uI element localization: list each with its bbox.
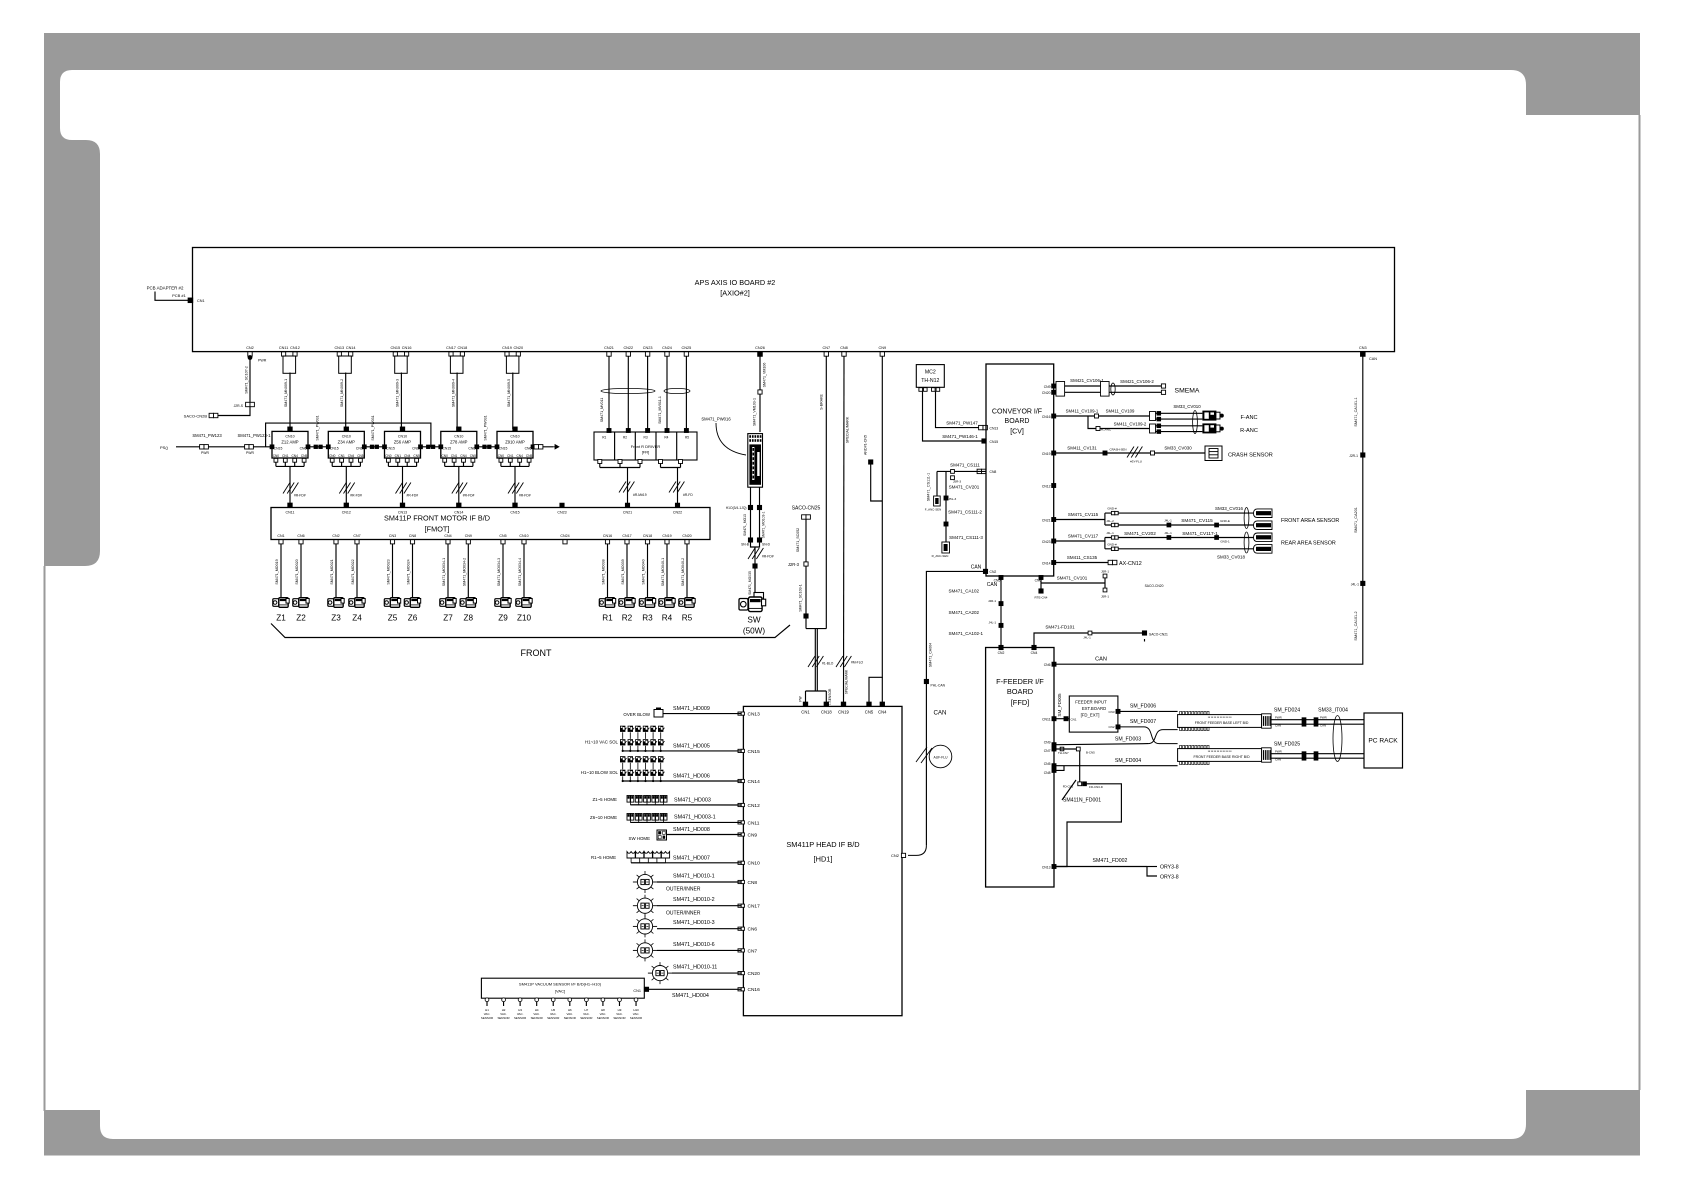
wire FD003 [1056,744,1148,745]
connector J4L-2 [1111,523,1114,526]
svg-text:SM471_CA004: SM471_CA004 [929,643,933,667]
connector CN2 stub [248,352,252,356]
wire CN4 to motor Z7 [447,544,449,598]
svg-text:Z7: Z7 [443,614,453,623]
svg-text:SM471_PW031: SM471_PW031 [371,415,375,440]
svg-text:CN19: CN19 [838,709,849,714]
svg-text:SM471_MO038: SM471_MO038 [602,559,606,584]
svg-text:SM_FD025: SM_FD025 [1274,742,1300,748]
svg-text:CN10: CN10 [398,435,407,439]
svg-text:PHL-CAN: PHL-CAN [931,684,946,688]
svg-text:PWR: PWR [201,451,209,455]
svg-text:CN6: CN6 [748,927,758,933]
wire CN2 to SACO-CN2B [217,407,250,416]
svg-text:CN4: CN4 [1031,651,1038,655]
svg-text:SM_FD003: SM_FD003 [1115,737,1141,743]
svg-text:CN5: CN5 [526,454,533,458]
hatch amp Z78 AMP output [452,483,459,494]
svg-text:CAN: CAN [1320,724,1326,728]
svg-text:SM33_CV016: SM33_CV016 [1215,506,1244,511]
VAC sensor stub H7 [585,998,589,1002]
svg-text:Z9: Z9 [498,614,508,623]
frame right thin line [1639,115,1641,1090]
hatch FR out B [669,482,676,493]
svg-text:SM471_CV115: SM471_CV115 [1068,512,1099,517]
svg-text:SM411N_FD001: SM411N_FD001 [1063,798,1101,804]
svg-text:SM471_CV101: SM471_CV101 [1057,576,1088,581]
connector HD1 CN14 [738,779,741,782]
svg-text:CN10: CN10 [454,435,463,439]
svg-text:CN6: CN6 [525,447,532,451]
connector FFD CN6 [1052,662,1056,666]
wire CN22 to FR driver [627,356,629,429]
wire HD004 [649,988,741,990]
svg-text:SM471_SC052: SM471_SC052 [796,528,800,552]
connector CV CN6 pin [1039,576,1043,580]
wire SACO-CN25 down [805,519,807,628]
svg-text:R4: R4 [664,436,668,440]
svg-text:CN1: CN1 [633,989,641,993]
svg-text:GND-1: GND-1 [1220,540,1230,544]
wire CV109 branch [1088,416,1150,429]
svg-text:CN10: CN10 [342,435,351,439]
svg-text:38 38 38 38 38 38 38 38: 38 38 38 38 38 38 38 38 [1208,751,1233,753]
wire HD006 [623,780,741,782]
svg-text:PCB #1: PCB #1 [172,293,187,298]
board FFD outline [986,648,1054,888]
motor Z1 [273,599,279,607]
wire SW merge [751,542,760,547]
connector ANC mid rects [1150,412,1156,421]
wire HD009 [663,713,741,715]
connector HD1 CN4 [880,702,884,706]
svg-text:SM471_HD010-11: SM471_HD010-11 [673,965,717,971]
svg-text:H1O(3/4-1JQ): H1O(3/4-1JQ) [726,506,747,510]
connector PW016 block [748,434,763,488]
svg-text:CN15: CN15 [990,440,999,444]
svg-text:SM471_MV011: SM471_MV011 [600,398,604,423]
connector F_ANC-SEN [934,496,941,506]
svg-text:SM411P HEAD IF B/D: SM411P HEAD IF B/D [786,840,859,849]
wire CN25 to FR driver [685,356,687,429]
svg-text:CN23: CN23 [643,346,653,350]
svg-text:#R-M#19: #R-M#19 [633,493,647,497]
svg-text:SM411_CV131: SM411_CV131 [1067,446,1097,451]
svg-text:R1~5 HOME: R1~5 HOME [591,855,616,860]
connector B-CN sq [1076,747,1080,751]
wire FD002 [1056,866,1147,868]
svg-text:AX-CN12: AX-CN12 [1119,561,1142,567]
svg-text:CN0: CN0 [442,454,449,458]
board FMOT outline [271,508,710,540]
svg-text:CN15: CN15 [442,447,451,451]
wire MC2 PW146-1 [923,391,984,441]
svg-text:CN10: CN10 [748,861,761,867]
wire PCB adapter to CN1 [155,292,190,301]
svg-text:SM471_MO040-1: SM471_MO040-1 [661,558,665,586]
VAC sensor stub H6 [568,998,572,1002]
svg-text:CN17: CN17 [446,346,456,350]
VAC sensor stub H9 [618,998,622,1002]
wire HD008 [666,834,741,836]
svg-text:CN19: CN19 [1042,452,1051,456]
FR bottom pin [679,460,683,464]
connector FD025 pins [1302,752,1306,756]
connector CRASH block [1205,446,1222,461]
motor Z10 [516,599,522,607]
wire amp link 1 [308,446,328,448]
motor Z2 [293,599,299,607]
svg-text:OVER BLOW: OVER BLOW [623,712,650,717]
wire CN2 down [249,356,251,403]
wire CN7 down [825,356,827,629]
svg-text:SM471_CV115: SM471_CV115 [1181,518,1213,523]
svg-text:SM421_CV106-2: SM421_CV106-2 [1120,379,1154,384]
connector FMOT top pin under Z34 AMP [344,503,348,507]
wire CN21 to FR driver [608,356,610,429]
connector PW147 inline [979,425,983,429]
cable tie lens B [664,388,690,393]
connector CN8 stub [410,540,414,544]
wire CN5 to motor Z9 [502,544,504,598]
svg-text:SM411_CS135: SM411_CS135 [1067,555,1098,560]
svg-text:(50W): (50W) [743,627,766,636]
svg-text:CN6: CN6 [412,447,419,451]
svg-text:Z12 AMP: Z12 AMP [281,440,298,445]
svg-text:CN4: CN4 [348,454,355,458]
svg-text:CN6: CN6 [1044,663,1051,667]
wire CS135 [1054,562,1110,564]
svg-text:CN21: CN21 [1042,518,1051,522]
wire CN2 to motor Z3 [335,544,337,598]
connector CN20 stub [685,540,689,544]
svg-text:J4L-1: J4L-1 [1083,636,1091,640]
amp box Z78 AMP [441,431,477,458]
connector SMEMA head [1056,382,1065,397]
VAC sensor stub H1 [485,998,489,1002]
connector J2R-1 pin [1361,453,1365,457]
wire amp link 4 [477,446,497,448]
svg-text:SM471_FD002: SM471_FD002 [1093,858,1128,864]
svg-text:[CV]: [CV] [1010,429,1024,436]
adjuster dial SM471_HD010-3 [637,919,652,934]
wire ORY fork [1147,867,1157,877]
svg-text:GND-#: GND-# [1107,542,1117,546]
svg-text:CN1: CN1 [282,454,289,458]
amp Z78 AMP bottom pins [443,458,447,462]
frame bottom band [44,1139,1640,1156]
connector FD-CN5 sq [1078,782,1082,786]
connector CN3 stub [390,540,394,544]
svg-text:SM471_MO034-3: SM471_MO034-3 [497,558,501,586]
connector FD-CN3-D sq [1083,782,1087,786]
svg-text:SM471_MO024: SM471_MO024 [407,559,411,584]
svg-text:SM33_CV018: SM33_CV018 [1217,555,1246,560]
wire CN11 pair to amp [289,373,291,430]
connector FFD CN8 [1052,768,1056,772]
svg-text:SM471_MO039: SM471_MO039 [621,559,625,584]
svg-text:OUTER/INNER: OUTER/INNER [666,910,701,916]
svg-text:SM471_MO13: SM471_MO13 [743,514,747,536]
svg-text:CN15: CN15 [390,346,400,350]
svg-text:CN0: CN0 [498,454,505,458]
svg-text:SM471_SC103-1: SM471_SC103-1 [799,584,803,612]
svg-text:SM_FD005: SM_FD005 [1057,693,1062,717]
connector HD1 CN10 [738,861,741,864]
svg-text:SM471_PW123: SM471_PW123 [192,433,222,438]
svg-text:CN5: CN5 [301,454,308,458]
svg-text:SM471_CS111-3: SM471_CS111-3 [949,535,983,540]
amp Z34 AMP bottom pins [330,458,334,462]
svg-text:SACO-CN2B: SACO-CN2B [184,413,208,418]
wire CN6 to motor Z2 [300,544,302,598]
svg-text:PWR: PWR [1320,716,1327,720]
svg-text:CN22: CN22 [673,511,682,515]
hatch 1-BLO [808,656,815,667]
motor Z3 [328,599,334,607]
FR bracket B [661,467,681,469]
hatch M-FLO [836,656,843,667]
svg-text:R5: R5 [682,614,693,623]
svg-text:CN8: CN8 [409,534,416,538]
wire CN15 pair to amp [400,373,402,430]
connector SC inline [804,614,808,618]
svg-text:SM471_CV201: SM471_CV201 [949,485,980,490]
svg-text:ORY3-8: ORY3-8 [1160,874,1179,880]
svg-text:CN14: CN14 [1042,561,1051,565]
svg-text:SW HOME: SW HOME [629,836,651,841]
wire PW016 out right [759,487,761,540]
connector CN19 stub [665,540,669,544]
FR driver divider 2 [634,432,636,460]
board HD1 outline [743,706,902,1015]
connector FMOT top pin under Z56 AMP [400,503,404,507]
svg-text:CN24: CN24 [560,534,569,538]
svg-text:FRONT AREA SENSOR: FRONT AREA SENSOR [1281,518,1339,524]
svg-text:CN1: CN1 [395,454,402,458]
svg-text:#R-FD: #R-FD [683,493,693,497]
connector CN17 stub [625,540,629,544]
svg-text:CN18: CN18 [821,709,832,714]
wire HD005 [623,750,741,752]
svg-text:SM471_CA202: SM471_CA202 [948,610,979,615]
wire CV131 [1054,452,1205,454]
svg-text:SM471_HD009: SM471_HD009 [673,706,710,712]
connector HD1 CN15 [738,749,741,752]
wire amp link 3 [421,446,441,448]
svg-text:CN12: CN12 [290,346,300,350]
wire CN9 to motor Z8 [467,544,469,598]
svg-text:SENSOR: SENSOR [630,1016,642,1020]
connector rear pill top [1254,533,1273,542]
connector R-ANC block [1202,423,1216,433]
hatch SW [748,548,755,559]
hatch amp Z12 AMP output [283,483,290,494]
connector CN4 stub [446,540,450,544]
svg-text:CN22: CN22 [623,346,633,350]
svg-text:PWR: PWR [1275,750,1282,754]
svg-text:R-ANC: R-ANC [1240,428,1258,434]
connector GND-E rear [1215,536,1219,540]
svg-text:B-CN5: B-CN5 [1086,750,1095,754]
wire SM471_HD010-2 [657,905,741,907]
svg-text:H1~10 BLOW SOL: H1~10 BLOW SOL [581,770,619,775]
svg-text:CN3: CN3 [389,534,396,538]
wire CS branch [945,471,947,496]
svg-text:J4L-1: J4L-1 [1164,531,1172,535]
svg-text:#M-FLO: #M-FLO [851,661,864,665]
svg-text:CN1: CN1 [451,454,458,458]
node CN2 junction dot [248,355,253,360]
svg-text:SM471_MO034-2: SM471_MO034-2 [463,558,467,586]
svg-text:J2R-1: J2R-1 [1349,454,1358,458]
svg-text:SM471_MO103-1: SM471_MO103-1 [762,512,766,539]
svg-text:CN18: CN18 [458,346,468,350]
cable lens rear [1244,532,1249,553]
hatch amp Z56 AMP output [396,483,403,494]
FMOT pin CN22 [675,503,679,507]
board AXIO#2 outline [193,248,1395,352]
svg-text:CN12: CN12 [748,803,761,809]
FR top pin [665,429,669,433]
wire FD007 curve [1120,727,1178,744]
svg-text:SPECIAL/MARK: SPECIAL/MARK [846,416,850,443]
wire SM471_HD010-3 [657,928,741,930]
svg-text:SM471_PW123-1: SM471_PW123-1 [237,433,271,438]
svg-text:CN17: CN17 [748,904,761,910]
svg-text:SACO-CN25: SACO-CN25 [792,506,821,512]
connector TH-CN sq [1060,747,1064,751]
svg-text:CN2: CN2 [1108,725,1114,729]
connector HD1 CN11 [738,821,741,824]
svg-text:SM_FD004: SM_FD004 [1115,758,1141,764]
svg-text:CN4: CN4 [878,709,887,714]
wire CN9 down [869,356,882,703]
motor Z6 [404,599,410,607]
svg-text:Z2: Z2 [296,614,306,623]
svg-text:[FD_EXT]: [FD_EXT] [1081,713,1100,718]
VAC sensor stub H2 [502,998,506,1002]
svg-text:CN14: CN14 [454,511,463,515]
svg-text:R2: R2 [623,436,627,440]
svg-text:EXT.BOARD: EXT.BOARD [1082,706,1106,711]
svg-text:CN20: CN20 [1042,391,1051,395]
amp box Z34 AMP [328,431,364,458]
wire HD007 [631,862,741,864]
wire HD003 [630,804,741,806]
wire FD001 drop [1079,751,1081,782]
wire ANC pair F [1156,412,1203,414]
amp Z910 AMP bottom pins [499,458,503,462]
svg-text:CN2: CN2 [332,534,339,538]
connector J5L-3 pin [944,496,948,500]
svg-text:CN2: CN2 [246,346,254,350]
svg-text:F-FEEDER I/F: F-FEEDER I/F [996,677,1044,686]
connector HD1 CN17 [738,904,741,907]
FR top pin [626,429,630,433]
svg-text:J4L-1: J4L-1 [1351,582,1359,586]
wire right bd to rack [1271,753,1364,755]
wire bundle split [806,690,827,692]
wire CV115 [1054,519,1105,521]
svg-text:CN20: CN20 [513,346,523,350]
svg-text:CN23: CN23 [1042,540,1051,544]
svg-text:SENSOR: SENSOR [514,1016,526,1020]
svg-text:CN8: CN8 [1044,771,1051,775]
svg-text:CN4: CN4 [292,454,299,458]
svg-text:SM471_HD010-1: SM471_HD010-1 [673,874,715,880]
svg-text:CN1: CN1 [801,709,810,714]
board VAC outline [481,978,644,998]
FR bottom pin [638,460,642,464]
wire CV CN6 down [1040,578,1042,589]
svg-text:CAN: CAN [1275,758,1281,762]
svg-text:CN26: CN26 [755,346,765,350]
wire FD006 [1120,710,1178,712]
svg-text:SM471_HD008: SM471_HD008 [673,827,710,833]
svg-text:SN-D: SN-D [762,543,771,547]
svg-text:CN3: CN3 [1359,346,1367,350]
svg-text:BOARD: BOARD [1005,418,1030,425]
svg-text:CN1: CN1 [507,454,514,458]
svg-text:FRONT FEEDER BASE RIGHT B/D: FRONT FEEDER BASE RIGHT B/D [1194,755,1251,759]
frame top band with left tab [44,33,1640,566]
svg-text:CAN: CAN [1369,357,1377,361]
front bracket line [271,624,790,638]
svg-text:J4L-1: J4L-1 [988,621,996,625]
connector CN7 stub [355,540,359,544]
svg-text:TH-N12: TH-N12 [921,378,939,384]
wire amp link 2 [364,446,384,448]
connector SN-B [748,538,752,542]
svg-text:SM471_HD010-6: SM471_HD010-6 [673,942,715,948]
svg-text:CN5: CN5 [413,454,420,458]
motor Z8 [460,599,466,607]
svg-text:SENSOR: SENSOR [613,1016,625,1020]
svg-text:SN-B: SN-B [741,543,750,547]
svg-text:R3: R3 [644,436,648,440]
FR bottom pin [618,460,622,464]
connector CV115 mid sqs [1167,523,1171,527]
svg-text:CN1: CN1 [277,534,284,538]
cable tie lens A [601,388,655,393]
svg-text:SM471_HD007: SM471_HD007 [673,855,710,861]
connector FMOT top pin under Z12 AMP [288,503,292,507]
svg-text:J5L-3: J5L-3 [949,497,957,501]
wire PSU to Z12 AMP [176,446,272,448]
svg-text:SENSOR: SENSOR [580,1016,592,1020]
wire CV117 [1054,540,1105,542]
svg-text:CN13: CN13 [990,426,999,430]
svg-text:SM471_PW147: SM471_PW147 [946,421,978,426]
svg-text:Z4: Z4 [352,614,362,623]
svg-text:SM471_MN009-5: SM471_MN009-5 [507,379,511,407]
wire CN16 to motor R1 [607,544,609,598]
connector CN1 stub [279,540,283,544]
wire CN19 pair to amp [512,373,514,430]
svg-text:SM471_MN009-1: SM471_MN009-1 [284,379,288,407]
connector SW mid pins [748,505,752,509]
svg-text:J5R-1: J5R-1 [1101,595,1109,599]
connector FFD CN13 [1052,865,1056,869]
wire CAN from CV CN2 [926,571,986,845]
svg-text:CN5: CN5 [470,454,477,458]
connector PW123-1 inline [245,445,249,449]
adjuster dial SM471_HD010-11 [652,966,667,981]
svg-text:#R-FD#: #R-FD# [350,494,362,498]
wire CN24 to FR driver [666,356,668,429]
connector PHL-CAN [924,679,928,683]
